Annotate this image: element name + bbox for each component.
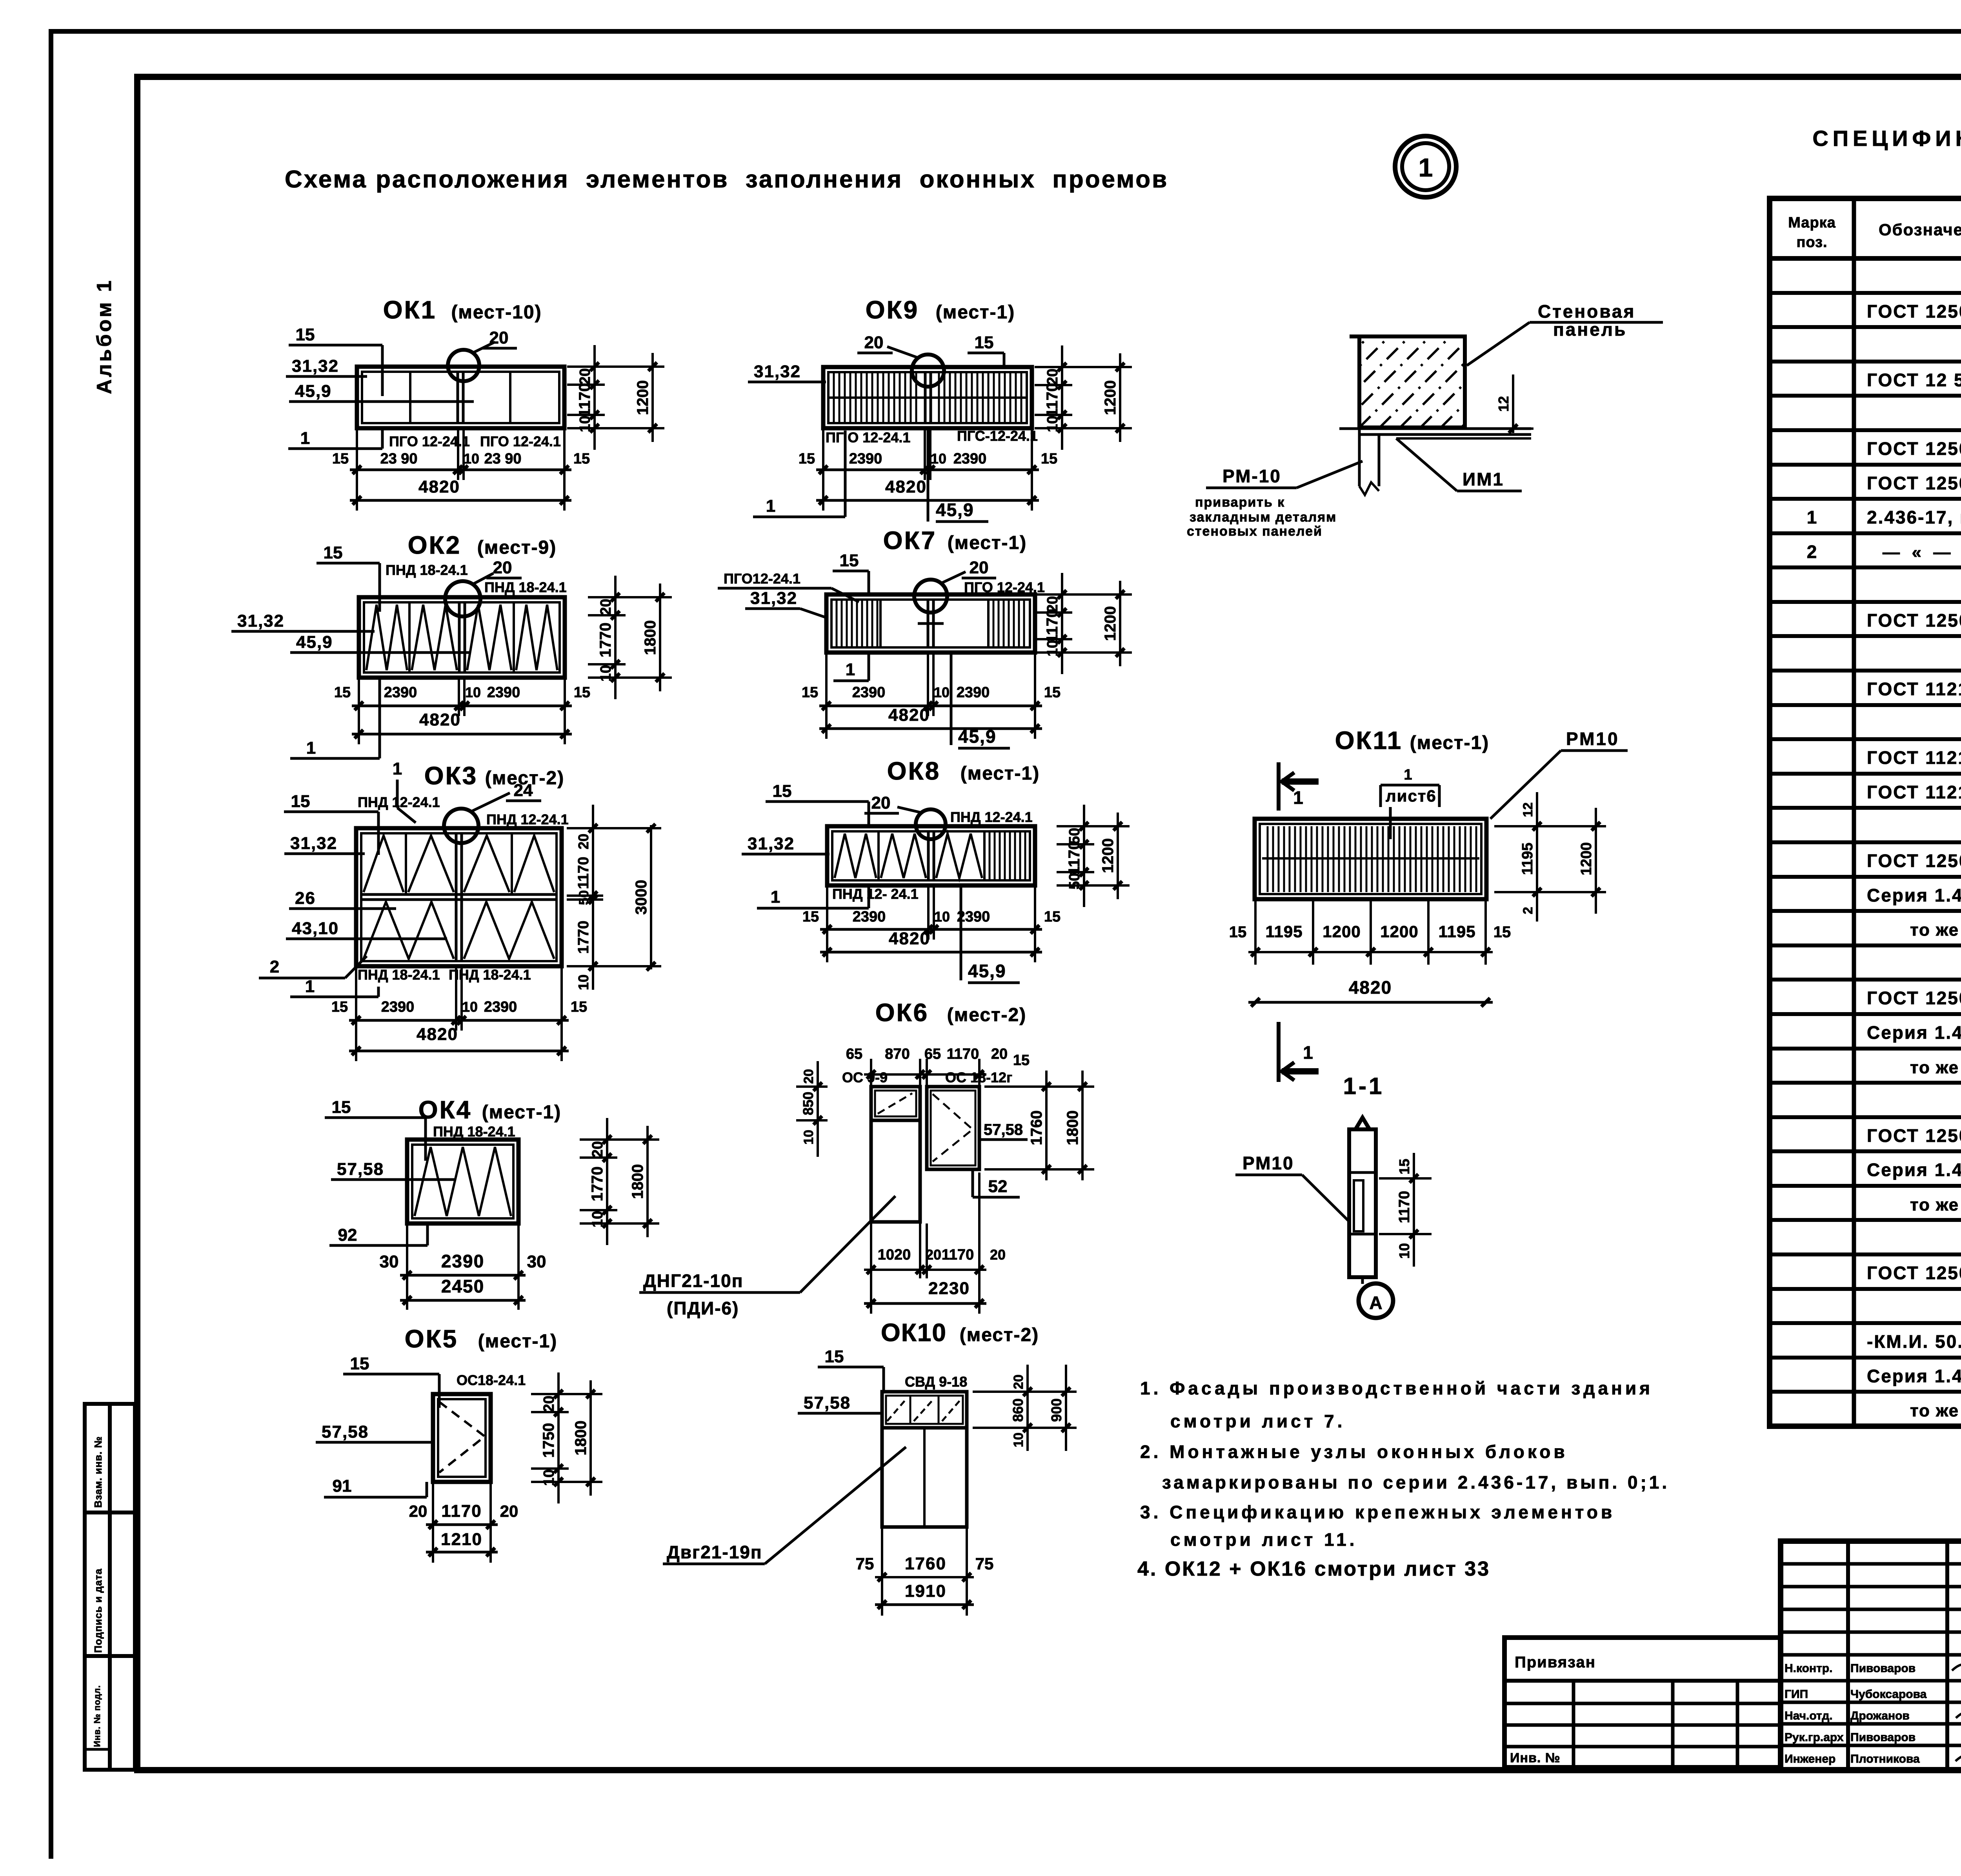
svg-text:смотри лист 11.: смотри лист 11.: [1170, 1529, 1357, 1550]
svg-text:1: 1: [766, 496, 775, 516]
svg-text:(мест-1): (мест-1): [482, 1102, 561, 1123]
svg-text:4820: 4820: [419, 710, 461, 729]
svg-text:50: 50: [577, 890, 591, 905]
svg-text:Серия 1.494-27: Серия 1.494-27: [1867, 1022, 1961, 1043]
svg-text:15: 15: [975, 333, 994, 352]
section mark bottom: [1277, 1022, 1281, 1082]
window OK8 sash symbols: [835, 834, 876, 878]
svg-text:2230: 2230: [928, 1279, 970, 1298]
window OK7 label 45,9 boxed: [950, 653, 953, 745]
window OK11 right dimensions: [1536, 792, 1538, 922]
svg-text:1170: 1170: [1066, 841, 1083, 875]
svg-text:ГОСТ 12506-81: ГОСТ 12506-81: [1867, 988, 1961, 1008]
window OK1 callout circle: [448, 350, 479, 381]
svg-text:ГОСТ 11214-86: ГОСТ 11214-86: [1867, 679, 1961, 699]
svg-text:ДНГ21-10п: ДНГ21-10п: [643, 1271, 744, 1291]
svg-text:15: 15: [291, 792, 310, 811]
svg-text:2: 2: [1807, 542, 1817, 562]
svg-text:15: 15: [296, 325, 315, 344]
svg-text:75: 75: [975, 1554, 994, 1573]
svg-text:75: 75: [856, 1554, 874, 1573]
svg-text:31,32: 31,32: [750, 589, 797, 608]
svg-text:1800: 1800: [642, 620, 659, 655]
window OK2 mullions: [408, 602, 411, 673]
callout circle 1: [1395, 136, 1456, 197]
privyazan box: [1504, 1638, 1781, 1767]
svg-text:ГОСТ 12506-81: ГОСТ 12506-81: [1867, 473, 1961, 493]
window OK4 sash symbols: [415, 1147, 511, 1216]
svg-text:1770: 1770: [575, 921, 592, 954]
window OK9 grille hatch: [834, 372, 916, 423]
svg-text:15: 15: [1493, 923, 1511, 941]
svg-text:то же: то же: [1910, 1401, 1959, 1420]
svg-text:1800: 1800: [572, 1421, 589, 1456]
svg-text:20: 20: [970, 558, 989, 577]
svg-text:ОК9: ОК9: [866, 296, 919, 324]
svg-text:20: 20: [541, 1396, 557, 1412]
svg-text:1170: 1170: [947, 1046, 979, 1062]
svg-text:1200: 1200: [1102, 606, 1119, 641]
window OK3 mullions: [455, 833, 458, 961]
svg-text:2390: 2390: [852, 684, 886, 701]
svg-text:20: 20: [991, 1046, 1008, 1062]
svg-text:ОК7: ОК7: [883, 526, 937, 554]
svg-text:15: 15: [825, 1347, 844, 1366]
svg-text:20: 20: [409, 1502, 427, 1520]
window OK2 frame: [359, 597, 565, 678]
window OK7 right dimensions: [1061, 573, 1063, 674]
window OK1 bottom dimensions: [356, 430, 358, 511]
svg-text:СПЕЦИФИКАЦИЯ ЭЛЕМЕНТОВ ЗАПОЛ: СПЕЦИФИКАЦИЯ ЭЛЕМЕНТОВ ЗАПОЛНЕНИЯ: [1812, 126, 1961, 151]
svg-text:45,9: 45,9: [968, 961, 1006, 981]
svg-text:15: 15: [773, 782, 792, 801]
window OK1 mullions: [409, 372, 411, 423]
svg-text:23 90: 23 90: [380, 451, 417, 467]
window OK6 left dimensions: [817, 1061, 819, 1157]
svg-text:30: 30: [527, 1252, 546, 1271]
svg-text:15: 15: [1013, 1052, 1030, 1069]
window OK4 bottom dimensions: [406, 1225, 408, 1310]
svg-text:20: 20: [871, 793, 891, 813]
svg-text:12: 12: [1495, 396, 1512, 412]
svg-text:15: 15: [1044, 909, 1061, 925]
svg-text:ПГО 12-24.1: ПГО 12-24.1: [964, 579, 1045, 595]
svg-text:1: 1: [393, 759, 402, 778]
svg-text:ГОСТ 12506-81: ГОСТ 12506-81: [1867, 851, 1961, 871]
window OK7 bottom dimensions: [825, 654, 828, 739]
svg-text:(мест-1): (мест-1): [948, 533, 1027, 553]
svg-text:45,9: 45,9: [295, 382, 332, 401]
svg-text:15: 15: [332, 1098, 351, 1117]
svg-text:Альбом 1: Альбом 1: [93, 278, 116, 394]
window OK10 upper window: [882, 1392, 967, 1428]
window OK6 top dimensions: [870, 1059, 872, 1088]
svg-text:(мест-9): (мест-9): [477, 537, 557, 558]
svg-text:31,32: 31,32: [237, 611, 284, 631]
svg-text:1: 1: [846, 660, 855, 679]
svg-text:50: 50: [1066, 873, 1083, 889]
window OK8 label 45,9 boxed: [960, 885, 962, 980]
svg-text:РМ10: РМ10: [1566, 729, 1619, 749]
svg-text:4820: 4820: [418, 477, 460, 496]
svg-text:20: 20: [864, 333, 884, 352]
svg-text:30: 30: [380, 1252, 399, 1271]
svg-text:1195: 1195: [1438, 922, 1475, 941]
window OK11 frame: [1255, 819, 1486, 899]
svg-text:2390: 2390: [381, 999, 415, 1015]
svg-text:1-1: 1-1: [1343, 1073, 1384, 1099]
svg-text:1200: 1200: [1578, 842, 1595, 876]
window OK4 frame: [407, 1140, 518, 1223]
svg-text:1170: 1170: [1044, 383, 1061, 417]
svg-text:ПГО 12-24.1: ПГО 12-24.1: [480, 433, 561, 449]
svg-text:(ПДИ-6): (ПДИ-6): [667, 1298, 739, 1318]
svg-text:ОК10: ОК10: [881, 1318, 947, 1347]
svg-text:1020: 1020: [878, 1247, 911, 1263]
svg-text:ОС18-24.1: ОС18-24.1: [457, 1372, 526, 1388]
svg-text:ИМ1: ИМ1: [1463, 469, 1504, 489]
svg-text:ГОСТ 12506-81: ГОСТ 12506-81: [1867, 1125, 1961, 1146]
svg-text:2. Монтажные узлы оконных блок: 2. Монтажные узлы оконных блоков: [1140, 1442, 1568, 1462]
section mark top: [1277, 762, 1281, 811]
svg-text:20: 20: [598, 599, 614, 615]
svg-text:1800: 1800: [629, 1164, 646, 1199]
svg-text:1: 1: [771, 887, 780, 907]
svg-text:ПНД 12- 24.1: ПНД 12- 24.1: [832, 886, 919, 902]
svg-text:РМ10: РМ10: [1242, 1153, 1294, 1173]
svg-text:1910: 1910: [905, 1582, 946, 1601]
window OK8 callout circle: [916, 809, 946, 839]
svg-text:4820: 4820: [1349, 977, 1392, 998]
svg-text:2390: 2390: [957, 684, 990, 701]
svg-text:20: 20: [575, 834, 591, 849]
svg-text:65: 65: [924, 1046, 941, 1062]
svg-text:4820: 4820: [417, 1025, 458, 1044]
svg-text:ПГС-12-24.1: ПГС-12-24.1: [957, 428, 1038, 444]
svg-text:Подпись и дата: Подпись и дата: [92, 1569, 104, 1653]
svg-text:ОК6: ОК6: [875, 998, 929, 1027]
svg-text:10: 10: [541, 1469, 557, 1486]
svg-text:4820: 4820: [888, 705, 930, 725]
svg-text:10: 10: [934, 909, 950, 925]
window frame head below panel: [1358, 427, 1361, 486]
window OK8 right dimensions: [1083, 805, 1085, 907]
svg-text:15: 15: [332, 451, 349, 467]
svg-text:15: 15: [1044, 684, 1061, 701]
window OK5 frame: [433, 1394, 491, 1482]
window OK2 callout circle: [445, 581, 480, 616]
window OK6 upper window: [871, 1087, 920, 1120]
svg-text:ОК11: ОК11: [1335, 726, 1403, 754]
svg-text:Стеновая: Стеновая: [1538, 301, 1635, 322]
svg-text:А: А: [1369, 1292, 1382, 1313]
svg-text:1200: 1200: [1099, 838, 1117, 873]
window OK10 bottom dimensions: [881, 1529, 883, 1616]
svg-text:15: 15: [840, 551, 859, 570]
svg-text:Инв. № подл.: Инв. № подл.: [92, 1685, 102, 1747]
svg-text:65: 65: [846, 1046, 862, 1062]
svg-text:ОК8: ОК8: [887, 757, 940, 785]
svg-text:1195: 1195: [1519, 843, 1536, 875]
window OK6 door leaf: [871, 1120, 920, 1222]
window OK7 frame: [826, 594, 1035, 653]
window OK5 bottom dimensions: [432, 1483, 434, 1563]
window OK1 right dimensions: [593, 345, 596, 450]
svg-text:850: 850: [800, 1092, 816, 1115]
svg-text:Привязан: Привязан: [1515, 1654, 1596, 1671]
window OK10 door leaf: [882, 1428, 967, 1527]
svg-text:Плотникова: Плотникова: [1850, 1752, 1920, 1765]
svg-text:15: 15: [331, 999, 348, 1015]
window OK6 bottom dimensions: [870, 1223, 872, 1314]
dim 12: [1512, 374, 1514, 433]
svg-text:1: 1: [1293, 787, 1303, 808]
svg-text:1770: 1770: [589, 1167, 606, 1202]
svg-text:1: 1: [1404, 767, 1412, 783]
svg-text:1: 1: [1303, 1042, 1313, 1063]
svg-text:10: 10: [931, 451, 946, 467]
svg-text:92: 92: [338, 1225, 357, 1245]
svg-text:1: 1: [300, 429, 310, 448]
svg-text:1170: 1170: [576, 383, 593, 417]
svg-text:ОК2: ОК2: [408, 531, 461, 559]
svg-text:15: 15: [350, 1354, 369, 1373]
svg-text:20: 20: [500, 1502, 518, 1520]
svg-text:(мест-1): (мест-1): [960, 763, 1040, 784]
window OK9 bottom dimensions: [822, 430, 824, 511]
section node circle A: [1361, 1277, 1364, 1284]
svg-text:ГОСТ 12506-81: ГОСТ 12506-81: [1867, 438, 1961, 459]
svg-text:Серия 1.494.27: Серия 1.494.27: [1867, 1366, 1961, 1386]
svg-text:52: 52: [988, 1177, 1008, 1196]
svg-text:15: 15: [334, 684, 351, 701]
svg-text:(мест-1): (мест-1): [936, 302, 1015, 323]
svg-text:ОК1: ОК1: [383, 296, 437, 324]
svg-text:2: 2: [1521, 907, 1535, 914]
window OK9 right dimensions: [1061, 345, 1063, 450]
svg-text:2390: 2390: [953, 451, 987, 467]
window OK1 frame: [357, 367, 564, 428]
signature table: [1846, 1541, 1850, 1770]
svg-text:закладным деталям: закладным деталям: [1190, 510, 1337, 525]
svg-text:ГОСТ 12506-81: ГОСТ 12506-81: [1867, 301, 1961, 322]
svg-text:Чубоксарова: Чубоксарова: [1850, 1688, 1927, 1701]
svg-text:(мест-1): (мест-1): [1410, 733, 1489, 753]
svg-text:57,58: 57,58: [984, 1121, 1023, 1138]
svg-text:1200: 1200: [1380, 922, 1418, 941]
svg-text:ПНД 18-24.1: ПНД 18-24.1: [358, 967, 440, 983]
svg-text:45,9: 45,9: [936, 500, 974, 520]
svg-text:15: 15: [1229, 923, 1247, 941]
window OK3 bottom dimensions: [355, 968, 357, 1061]
wall panel hatched section: [1359, 336, 1465, 427]
window OK9 mullion: [924, 372, 927, 423]
window OK2 right dimensions: [614, 576, 617, 699]
svg-text:10: 10: [1044, 416, 1061, 432]
svg-text:ОК3: ОК3: [424, 762, 478, 790]
window OK3 right dimensions: [592, 805, 594, 990]
svg-text:43,10: 43,10: [292, 919, 339, 938]
svg-text:Инженер: Инженер: [1785, 1752, 1835, 1765]
window OK10 right dimensions: [1026, 1365, 1029, 1451]
svg-text:10: 10: [464, 451, 479, 467]
svg-text:ОК5: ОК5: [405, 1325, 458, 1353]
svg-text:ПНД 18-24.1: ПНД 18-24.1: [484, 579, 567, 595]
window OK8 grille hatch: [990, 831, 1025, 880]
svg-text:15: 15: [1041, 451, 1057, 467]
svg-text:10: 10: [1044, 640, 1061, 656]
svg-text:2390: 2390: [487, 684, 520, 701]
svg-text:31,32: 31,32: [748, 834, 795, 853]
svg-text:-КМ.И. 50.0.0: -КМ.И. 50.0.0: [1867, 1331, 1961, 1352]
svg-text:1: 1: [1807, 507, 1817, 527]
svg-text:Рук.гр.арх: Рук.гр.арх: [1785, 1731, 1844, 1744]
svg-text:лист6: лист6: [1386, 787, 1437, 805]
window OK7 grille hatch left: [837, 600, 877, 647]
svg-text:31,32: 31,32: [754, 362, 801, 381]
svg-text:СВД 9-18: СВД 9-18: [905, 1374, 967, 1390]
svg-text:1800: 1800: [1064, 1111, 1081, 1145]
svg-text:15: 15: [802, 909, 819, 925]
svg-text:Пивоваров: Пивоваров: [1850, 1662, 1916, 1675]
svg-text:1: 1: [305, 977, 315, 996]
svg-text:4820: 4820: [889, 929, 930, 948]
svg-text:1200: 1200: [634, 380, 651, 415]
svg-text:20: 20: [589, 1141, 606, 1158]
window OK6 right window: [927, 1087, 979, 1169]
svg-text:10: 10: [577, 416, 593, 432]
svg-text:12: 12: [1521, 802, 1535, 817]
window OK7 mullion: [927, 600, 930, 647]
svg-text:ОС 9-9: ОС 9-9: [842, 1069, 888, 1085]
svg-text:Взам. инв. №: Взам. инв. №: [92, 1436, 104, 1508]
svg-text:ПГО12-24.1: ПГО12-24.1: [724, 571, 800, 587]
svg-text:15: 15: [799, 451, 815, 467]
window OK8 bottom dimensions: [826, 887, 828, 962]
window OK11 grille hatch: [1268, 826, 1476, 892]
svg-text:91: 91: [333, 1476, 352, 1496]
svg-text:15: 15: [802, 684, 818, 701]
svg-text:860: 860: [1010, 1398, 1026, 1422]
svg-text:10: 10: [598, 665, 614, 682]
svg-text:10: 10: [589, 1211, 606, 1227]
svg-text:2390: 2390: [849, 451, 882, 467]
svg-text:1170: 1170: [441, 1502, 482, 1521]
svg-text:20: 20: [926, 1247, 941, 1263]
svg-text:20: 20: [990, 1247, 1006, 1263]
sill lines: [1339, 427, 1531, 430]
svg-text:15: 15: [574, 684, 590, 701]
svg-text:15: 15: [1396, 1159, 1412, 1174]
svg-text:1170: 1170: [1396, 1191, 1413, 1223]
svg-text:31,32: 31,32: [292, 356, 339, 376]
svg-text:900: 900: [1048, 1398, 1064, 1422]
window OK2 sash symbols: [366, 605, 407, 670]
svg-text:15: 15: [324, 543, 343, 562]
svg-text:2390: 2390: [853, 909, 886, 925]
svg-text:1195: 1195: [1265, 922, 1302, 941]
svg-text:(мест-10): (мест-10): [451, 302, 542, 323]
svg-text:ПНД 18-24.1: ПНД 18-24.1: [386, 562, 468, 578]
svg-text:23 90: 23 90: [484, 451, 521, 467]
svg-text:Марка: Марка: [1788, 215, 1836, 231]
svg-text:ПНД 18-24.1: ПНД 18-24.1: [433, 1123, 515, 1140]
window OK3 callout circle: [444, 809, 478, 843]
svg-text:ГОСТ 12506-81: ГОСТ 12506-81: [1867, 1263, 1961, 1283]
svg-text:1: 1: [306, 738, 316, 758]
svg-text:1760: 1760: [905, 1554, 946, 1573]
svg-text:2390: 2390: [484, 999, 517, 1015]
svg-text:24: 24: [514, 781, 533, 800]
window OK11 bottom dimensions: [1254, 901, 1257, 965]
svg-text:20: 20: [493, 558, 512, 577]
svg-text:1200: 1200: [1322, 922, 1361, 941]
svg-text:3. Спецификацию крепежных элем: 3. Спецификацию крепежных элементов: [1140, 1502, 1615, 1522]
svg-text:1170: 1170: [942, 1247, 974, 1263]
svg-text:то же: то же: [1910, 920, 1959, 940]
svg-text:10: 10: [575, 974, 591, 990]
svg-text:1. Фасады производственной час: 1. Фасады производственной части здания: [1140, 1378, 1653, 1398]
svg-text:1170: 1170: [575, 857, 592, 889]
svg-text:4820: 4820: [885, 477, 927, 496]
window OK2 bottom dimensions: [358, 679, 360, 744]
svg-text:20: 20: [1044, 369, 1061, 385]
window OK8 mullions: [877, 831, 880, 880]
svg-text:4. ОК12 + ОК16 смотри лист 33: 4. ОК12 + ОК16 смотри лист 33: [1137, 1558, 1490, 1580]
svg-text:870: 870: [885, 1046, 910, 1062]
svg-text:(мест-2): (мест-2): [960, 1325, 1039, 1345]
window OK8 frame: [827, 826, 1035, 885]
svg-text:3000: 3000: [633, 880, 650, 915]
svg-text:стеновых панелей: стеновых панелей: [1187, 524, 1322, 539]
window OK9 label 45,9 boxed: [927, 428, 930, 522]
svg-text:ГОСТ 12506-81: ГОСТ 12506-81: [1867, 610, 1961, 631]
svg-text:20: 20: [577, 368, 593, 385]
svg-text:2: 2: [270, 957, 279, 976]
svg-text:Серия 1.494-27: Серия 1.494-27: [1867, 885, 1961, 905]
svg-text:ПГ О 12-24.1: ПГ О 12-24.1: [826, 429, 910, 445]
svg-text:10: 10: [934, 684, 950, 700]
svg-text:2390: 2390: [441, 1251, 484, 1271]
svg-text:ГОСТ 11214-86: ГОСТ 11214-86: [1867, 782, 1961, 802]
svg-text:то же: то же: [1910, 1058, 1959, 1077]
svg-text:Нач.отд.: Нач.отд.: [1785, 1709, 1833, 1722]
document number box: [1781, 1541, 1961, 1770]
svg-text:1200: 1200: [1102, 380, 1119, 415]
svg-text:смотри лист 7.: смотри лист 7.: [1170, 1411, 1345, 1431]
window OK5 open symbol: [439, 1402, 485, 1472]
window OK7 grille hatch right: [987, 600, 990, 647]
svg-text:Н.контр.: Н.контр.: [1785, 1662, 1832, 1675]
svg-text:20: 20: [489, 328, 509, 347]
svg-text:Дрожанов: Дрожанов: [1850, 1709, 1910, 1722]
section 1-1 right dimension: [1413, 1153, 1415, 1267]
svg-text:26: 26: [295, 889, 316, 908]
svg-text:— « — « —: — « — « —: [1883, 543, 1961, 562]
svg-text:10: 10: [1396, 1243, 1412, 1259]
svg-text:2390: 2390: [384, 684, 417, 701]
svg-text:(мест-1): (мест-1): [478, 1331, 557, 1352]
svg-text:10: 10: [462, 999, 478, 1015]
window OK6 right dimensions: [1045, 1071, 1048, 1180]
section 1-1 frame bar: [1349, 1129, 1376, 1277]
svg-text:(мест-2): (мест-2): [947, 1005, 1026, 1025]
svg-text:РМ-10: РМ-10: [1222, 466, 1281, 486]
left margin stamp boxes: [85, 1404, 135, 1770]
svg-text:20: 20: [1011, 1374, 1026, 1389]
svg-text:15: 15: [571, 999, 587, 1015]
svg-text:замаркированы по серии 2.436-1: замаркированы по серии 2.436-17, вып. 0;…: [1162, 1472, 1670, 1492]
